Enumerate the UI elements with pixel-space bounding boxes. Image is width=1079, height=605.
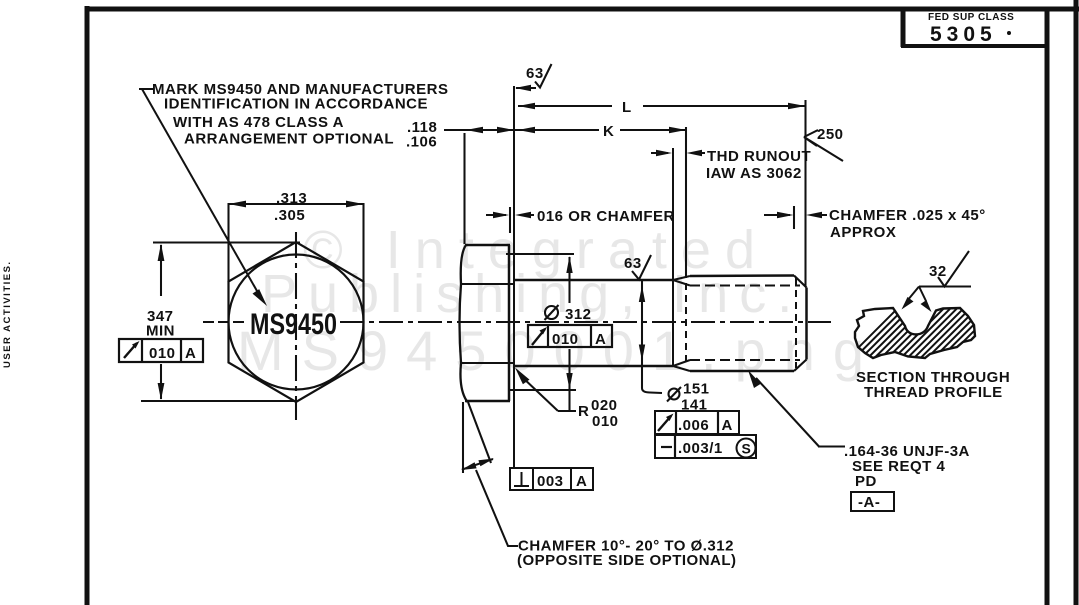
svg-text:IAW AS 3062: IAW AS 3062 (706, 165, 802, 182)
svg-text:5305: 5305 (930, 23, 997, 46)
chamfer .025 left arrow (764, 214, 790, 216)
svg-text:WITH AS 478 CLASS A: WITH AS 478 CLASS A (173, 114, 344, 131)
fcf straightness .003/1 S (655, 435, 756, 458)
dim .347 line segments (160, 245, 162, 296)
svg-text:A: A (185, 345, 196, 362)
svg-text:003: 003 (537, 473, 564, 490)
svg-text:-A-: -A- (858, 494, 880, 511)
shank top line (514, 279, 673, 282)
svg-text:FED SUP CLASS: FED SUP CLASS (928, 12, 1014, 23)
thread minor hidden bottom (690, 359, 800, 361)
side view: head left profile (460, 245, 468, 402)
head chamfer double arrow (461, 459, 494, 471)
side view: head right edge (508, 245, 511, 401)
thd runout dim arrows (651, 152, 668, 154)
svg-text:250: 250 (817, 126, 844, 143)
hex head hexagon (229, 242, 364, 402)
leader 250 (804, 126, 844, 161)
thread minor hidden top (690, 285, 800, 287)
centerline vertical (front view) (295, 232, 297, 420)
svg-text:THD RUNOUT: THD RUNOUT (707, 148, 811, 165)
svg-text:MS9450: MS9450 (250, 308, 337, 341)
side view: head facet line upper (461, 283, 513, 285)
dim .313/.305 line (229, 203, 364, 205)
thread major top line (690, 274, 794, 277)
dim L extension right (804, 100, 806, 287)
dim .016 right arrow (515, 212, 531, 218)
svg-text:S: S (742, 441, 751, 457)
shank bottom line (514, 365, 673, 368)
svg-text:THREAD PROFILE: THREAD PROFILE (864, 384, 1003, 401)
chamfer .025 right arrow (806, 212, 822, 218)
dim dia .312 arrows (566, 256, 572, 273)
leader .164-36 thread (748, 370, 845, 447)
dim .118/.106 extension (463, 133, 465, 244)
washer face extension top (506, 253, 574, 255)
thread start extension line (685, 127, 687, 278)
thread end chamfer bottom (794, 360, 807, 372)
centerline horizontal (203, 321, 831, 323)
dim K arrows (518, 127, 535, 134)
side view: head facet line lower (461, 362, 513, 364)
dim .347 arrows (158, 244, 165, 262)
svg-text:.313: .313 (276, 190, 307, 207)
fcf runout .006 A (655, 411, 739, 434)
svg-text:312: 312 (565, 306, 592, 323)
head chamfer projection line (468, 402, 491, 463)
svg-text:(OPPOSITE SIDE OPTIONAL): (OPPOSITE SIDE OPTIONAL) (517, 552, 737, 569)
thread end edge (805, 288, 808, 360)
dim .313/.305 arrows (229, 201, 247, 208)
border right outer (1074, 0, 1079, 605)
border top (85, 7, 1079, 12)
chamfer .025 tick (793, 206, 795, 229)
chamfer note leader (476, 470, 518, 546)
fcf runout .010 A (head) (119, 339, 203, 362)
finish 32 thread flanks (902, 251, 972, 312)
svg-text:151: 151 (683, 381, 710, 398)
bearing face extension line (513, 86, 515, 468)
svg-text:ARRANGEMENT OPTIONAL: ARRANGEMENT OPTIONAL (184, 131, 394, 148)
svg-text:PD: PD (855, 473, 877, 490)
note leader dash (139, 88, 153, 90)
dim dia .312 text (545, 305, 592, 323)
dim L arrows (518, 103, 535, 110)
svg-text:MIN: MIN (146, 323, 175, 340)
thread end hidden line (795, 278, 797, 368)
svg-text:.003/1: .003/1 (678, 440, 723, 457)
svg-text:010: 010 (552, 331, 579, 348)
note: mark ms9450 (152, 81, 448, 148)
svg-text:A: A (576, 473, 587, 490)
svg-text:63: 63 (526, 65, 544, 82)
side view: head top edge (465, 244, 510, 247)
note leader arrowhead (253, 289, 268, 306)
svg-text:K: K (603, 123, 614, 140)
svg-text:A: A (722, 417, 733, 434)
dim L line (518, 105, 805, 107)
svg-text:USER ACTIVITIES.: USER ACTIVITIES. (2, 260, 13, 368)
dim .347 extension lines (153, 241, 300, 243)
fcf runout .010 A (shank) (528, 325, 612, 348)
svg-text:020: 020 (591, 397, 618, 414)
thread section profile (834, 298, 1047, 372)
dim .118/.106 arrows (outward) (466, 127, 483, 134)
dia .151/.141 text (667, 381, 710, 414)
border left (85, 6, 90, 605)
svg-text:.106: .106 (406, 134, 437, 151)
dim dia .312 line (568, 257, 570, 411)
thread start hidden line (685, 283, 687, 362)
fed sup class box (901, 10, 1047, 47)
border right inner (1045, 7, 1050, 605)
fcf perpendicularity .003 A (510, 468, 593, 490)
svg-text:016 OR CHAMFER: 016 OR CHAMFER (537, 208, 675, 225)
dim .313/.305 extension lines (227, 203, 229, 282)
thread transition line (672, 148, 674, 366)
dim .016 washer face tick (509, 207, 511, 233)
svg-text:R: R (578, 403, 589, 420)
finish 63 shank (624, 255, 651, 280)
svg-text:63: 63 (624, 255, 642, 272)
svg-text:APPROX: APPROX (830, 224, 896, 241)
side view: head bottom edge (465, 400, 510, 403)
dim .016 left arrow (486, 214, 506, 216)
dim K line (444, 129, 686, 131)
head chamfer extension line (462, 402, 464, 473)
svg-text:010: 010 (149, 345, 176, 362)
finish 63 head face (515, 64, 552, 91)
svg-text:L: L (622, 99, 632, 116)
dim dia .151/.141 line (642, 280, 662, 393)
svg-text:.006: .006 (678, 417, 709, 434)
thread major bottom line (690, 370, 794, 373)
svg-text:A: A (595, 331, 606, 348)
washer face extension bottom (508, 389, 576, 391)
thread runout slants (673, 276, 690, 371)
note leader to hex head (142, 89, 261, 298)
leader R .020/.010 fillet (515, 368, 619, 431)
svg-text:IDENTIFICATION IN ACCORDANCE: IDENTIFICATION IN ACCORDANCE (164, 96, 428, 113)
dim dia .151 arrows (639, 286, 645, 303)
svg-text:CHAMFER .025 x 45°: CHAMFER .025 x 45° (829, 207, 986, 224)
thread end chamfer top (794, 276, 807, 288)
svg-text:.305: .305 (274, 207, 305, 224)
datum A box (851, 492, 894, 511)
svg-text:010: 010 (592, 413, 619, 430)
hex head circle (washer face) (229, 255, 364, 390)
